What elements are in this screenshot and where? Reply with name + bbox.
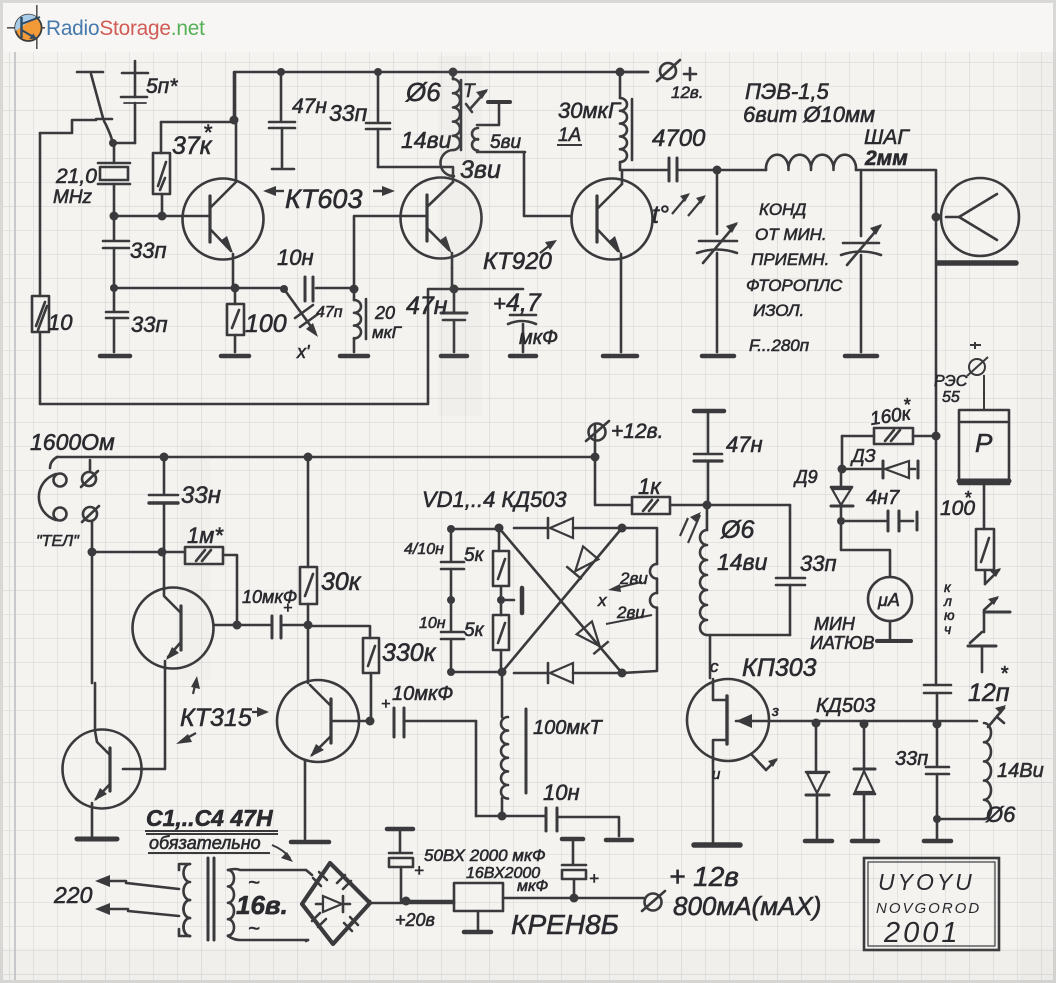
meter мкА [868,577,912,621]
inductor 20мкГ [353,289,356,300]
svg-text:обязательно: обязательно [149,833,261,853]
diode VD5 КД503 [815,723,818,772]
ground under 100 [221,354,249,359]
svg-text:*: * [203,120,213,145]
svg-text:33п: 33п [329,100,368,126]
transistor Q1 emitter arrow [220,236,233,253]
svg-text:330к: 330к [382,639,437,667]
svg-text:ПРИЕМН.: ПРИЕМН. [751,250,829,269]
terminal Ø +12в top [620,71,648,74]
svg-text:10н: 10н [419,615,446,632]
capacitor 47н emitter Q2 [453,289,456,312]
capacitor 2000мкФ (input) [387,827,413,832]
svg-text:мкФ: мкФ [517,878,549,895]
svg-text:Ø6: Ø6 [720,516,754,544]
transistor Q5 КТ315 [277,680,359,762]
svg-text:2ви: 2ви [619,569,648,588]
svg-text:MHz: MHz [53,187,93,208]
svg-text:мкФ: мкФ [519,327,558,349]
terminal Ø output [645,894,662,911]
svg-text:ПЭВ-1,5: ПЭВ-1,5 [745,79,830,104]
variable capacitor C* (right) [860,170,863,236]
svg-text:5к: 5к [464,545,485,566]
RadioStorage.net logo text [46,17,205,40]
С1..С4 underline + arrow [145,831,290,858]
ground under Q6 [77,837,117,842]
svg-text:14ви: 14ви [717,549,768,575]
wire rail risers [594,425,597,457]
svg-text:10н: 10н [543,780,580,805]
scan border edges [0,0,1056,3]
svg-text:Ø6: Ø6 [985,802,1016,827]
svg-text:+: + [381,696,390,713]
variable capacitor C* (left) [716,170,719,234]
rectifier bridge diamond [302,863,370,944]
wire gate line КД503 [769,720,977,723]
wire mod tank top [707,504,790,507]
transistor Q4 КТ315 [133,588,214,669]
transistor Q6 КТ315 [63,730,142,809]
svg-text:Ø6: Ø6 [405,77,441,107]
svg-text:ИАТЮВ: ИАТЮВ [810,633,875,653]
diode VD4 triangle [550,663,573,683]
ground under 20мкГ [340,354,368,359]
capacitor 47н (mod) with top bar [694,409,724,414]
svg-text:мкГ: мкГ [372,323,403,342]
svg-text:з: з [771,703,779,720]
regulator КРЕН8Б box [406,900,454,903]
wire Q6 base [123,768,143,771]
svg-text:х': х' [296,342,310,362]
svg-text:F...280п: F...280п [749,336,810,355]
inductor 30мкГ choke [619,73,622,98]
transistor Q1 КТ603 [183,179,264,260]
resistor 5к lower [500,600,503,615]
diode VD5 triangle [807,773,827,793]
terminal РЭС55 + Ø [967,342,988,410]
wire Q5 base [333,720,370,723]
svg-text:ОТ МИН.: ОТ МИН. [755,225,827,244]
КТ315 label arrows [180,681,264,742]
svg-text:*: * [903,395,911,415]
resistor 330к [308,626,370,638]
КТ920 label arrow [540,242,554,253]
ground under Q5 [291,840,329,845]
bridge cap marks C1..C4 [313,872,327,886]
wire Q2 collector to tank bottom [452,167,455,182]
capacitor 10мкФ (Q4) [271,616,274,638]
diode VD6 triangle [855,771,874,792]
svg-text:UYOYU: UYOYU [878,869,975,895]
svg-text:RadioStorage.net: RadioStorage.net [46,17,205,40]
wire Q1 collector junction [233,72,236,120]
wire bridge bottom [451,671,502,674]
transformer secondary [228,870,234,936]
resistor 5к upper [498,528,501,551]
contact arrows [990,568,1001,577]
wire right side with 2ви windings [622,528,657,564]
diode VD1 triangle [550,518,573,538]
terminal Ø+12в (middle) [589,424,606,441]
svg-text:1А: 1А [558,125,581,146]
diode Д3 [842,468,881,471]
coupling mark between 2ви and 14ви [680,515,700,543]
svg-text:+ 12в: + 12в [669,861,739,892]
svg-text:NOVGOROD: NOVGOROD [876,900,981,917]
svg-text:+20в: +20в [395,910,435,930]
2ви tap arrows [606,582,652,624]
svg-text:и: и [712,766,721,783]
T arrowhead [476,89,488,99]
wire feedback left leg [40,120,96,133]
diode Д9 triangle [832,489,851,505]
FET gate arrow [736,714,752,728]
svg-text:6вит Ø10мм: 6вит Ø10мм [743,102,875,127]
diode VD3 on diagonal [577,621,609,654]
diagonal bottom-left to top-right [502,528,622,672]
transformer T1 primary [179,864,190,870]
wire audio drop [475,721,478,816]
capacitor 33п (first, under crystal) [113,216,116,240]
diode VD1 [547,518,550,538]
svg-text:30мкГ: 30мкГ [558,98,622,123]
wire bridge output [370,901,454,903]
capacitor 10н (audio) [545,808,548,831]
resistor 1м* feedback [162,551,185,554]
КТ603 label arrows [268,190,390,192]
svg-text:*: * [964,488,972,508]
wire coil to antenna drop [856,170,936,217]
Q4 emitter arrow [166,647,179,660]
capacitor 4н7 [842,520,886,523]
transistor Q3 КТ920 [572,179,653,260]
capacitor 33н [163,457,166,494]
diagonal top-left to bottom-right [499,528,622,673]
input 220В arrows [100,880,126,883]
winding 5ви secondary [488,100,510,104]
diode Д9 [840,469,843,487]
source to ground [712,761,715,843]
svg-text:21,0: 21,0 [55,165,97,188]
transformer core [207,858,210,940]
antenna W1 [941,178,1019,256]
junction dots top section [109,68,941,294]
resistor 1к drop [595,457,632,505]
svg-text:КД503: КД503 [816,695,875,717]
capacitor 10н coupling [304,277,307,301]
junction dots bridge [447,524,627,678]
ground under var cap left [702,354,734,359]
transistor U2 КП303 FET [687,679,769,761]
coil adjust arrow [988,708,1004,727]
Q5 emitter arrow [310,744,324,757]
svg-text:РЭС: РЭС [934,373,968,390]
diode VD2 on diagonal [566,546,598,579]
svg-text:VD1,..4 КД503: VD1,..4 КД503 [422,487,567,512]
wire base Q1 [114,215,210,218]
wire bridge top [451,528,499,531]
capacitor 10мкФ (Q5) [393,708,396,737]
svg-text:33п: 33п [895,748,928,770]
svg-text:16в.: 16в. [236,890,288,920]
relay РЭС55 box Р [959,410,1009,484]
inductor ПЭВ-1.5 air coil [766,155,856,170]
svg-text:33п: 33п [131,312,168,337]
wire Q2 base riser [354,216,427,288]
svg-text:+12в.: +12в. [611,420,663,443]
contact ключ [985,570,999,584]
svg-text:~: ~ [248,872,260,894]
ground under 33п chain [100,354,130,359]
diode VD4 bar [547,663,550,683]
substrate lead [752,755,766,770]
svg-text:КТ315: КТ315 [180,704,252,732]
svg-text:100: 100 [245,310,287,338]
Q6 emitter arrow [94,788,107,801]
capacitor 47н (dangling top) [280,72,283,120]
wire to ПЭВ coil [717,169,766,172]
svg-text:+: + [414,861,424,880]
svg-text:КТ603: КТ603 [285,184,362,214]
svg-text:33п: 33п [800,551,837,576]
svg-text:2мм: 2мм [864,147,908,170]
inductor L1 14ви with core [452,72,455,79]
ground under var cap right [845,354,877,359]
wire emitter loop to bottom [41,289,454,404]
core adjust T arrow [470,91,486,109]
inductor Ø6 14ви (mod tank) [706,505,709,530]
svg-text:1к: 1к [638,474,662,499]
wire jack to Q6 collector [91,521,94,552]
diode Д3 triangle [885,461,909,478]
svg-text:55: 55 [942,389,960,406]
transistor Q2 emitter arrow [439,236,452,254]
capacitor 5п* [122,72,148,75]
svg-text:12в.: 12в. [671,83,704,102]
svg-text:5ви: 5ви [490,132,521,153]
svg-text:4/10н: 4/10н [404,541,444,558]
scan shading [438,56,482,416]
wire Q4 base out [214,624,271,627]
svg-text:ФТОРОПЛС: ФТОРОПЛС [746,276,843,295]
crystal ZQ1 21.0 MHz [113,143,116,163]
inductor 100мкТ [501,672,504,717]
svg-text:1600Ом: 1600Ом [30,429,115,455]
svg-text:2001: 2001 [883,917,961,949]
svg-text:47н: 47н [292,95,327,118]
svg-text:100мкТ: 100мкТ [533,717,604,739]
wire switch/cap junction [113,142,135,145]
svg-text:КП303: КП303 [742,654,817,682]
capacitor 4/10н [450,529,453,561]
wire meter drop [841,521,890,577]
wire 160к left drop [841,436,844,469]
wire tank to КП303 drain [709,635,712,678]
resistor 100* [976,529,994,570]
capacitor 33п (mod tank) [789,505,792,577]
wire collector Q3 [621,170,624,184]
trimmer 47п diagonal [284,289,315,332]
svg-text:47н: 47н [726,432,763,457]
t° arrows [672,195,704,216]
resistor 160к [842,435,874,438]
svg-text:ИЗОЛ.: ИЗОЛ. [753,301,804,320]
svg-text:с: с [710,657,719,676]
svg-text:ШАГ: ШАГ [864,126,910,149]
svg-text:47п: 47п [316,304,343,321]
resistor 30к [307,457,310,567]
resistor 37к [160,122,163,153]
svg-text:t°: t° [652,201,669,229]
inductor 3ви bottom curl [440,150,454,176]
svg-text:2ви: 2ви [616,603,645,622]
220 arrowheads [95,875,110,887]
capacitor 12п* [924,684,951,687]
svg-text:10мкФ: 10мкФ [242,587,297,607]
wire top supply rail [235,71,648,74]
svg-text:Р: Р [975,428,993,458]
svg-text:30к: 30к [321,568,362,596]
bridge inner diode [316,903,322,906]
svg-text:20: 20 [374,303,395,323]
inductor 14Ви output coil [984,723,991,819]
trimmer 47п arrowhead [306,323,318,337]
RadioStorage.net logo icon [7,5,45,49]
capacitor 4,7мкФ [454,288,523,291]
wire rail left drop to 37k [161,72,235,122]
box UYOYU NOVGOROD 2001 [864,858,999,950]
svg-text:~: ~ [248,918,260,940]
svg-text:10: 10 [48,310,73,335]
diode VD6 КД503 [863,724,866,769]
svg-text:Д9: Д9 [793,467,818,487]
svg-text:ДЗ: ДЗ [850,446,876,466]
ground under Q3 [603,354,637,359]
capacitor 10н lower [450,600,453,631]
wire audio node [476,815,546,818]
svg-text:+: + [589,869,599,888]
capacitor 33п (out) [936,724,939,766]
transistor Q3 emitter arrow [608,236,621,254]
svg-text:800мА(мАХ): 800мА(мАХ) [673,891,821,921]
transistor Q2 КТ603 [401,178,482,259]
resistor 10 [32,296,49,332]
capacitor 33п (second) [113,288,116,311]
wire lower supply rail [57,456,595,459]
svg-text:5п*: 5п* [146,75,178,98]
wire right feed down [935,217,938,685]
resistor 100 [234,288,237,304]
svg-text:КОНД: КОНД [759,200,806,219]
junction dots middle [88,453,712,726]
bridge inner diode triangle [323,896,342,912]
wire emitter bus [114,287,284,290]
svg-text:4,7: 4,7 [506,289,542,317]
svg-text:С1,..С4 47Н: С1,..С4 47Н [146,805,273,831]
svg-text:"ТЕЛ": "ТЕЛ" [36,533,80,550]
svg-text:+: + [493,291,506,316]
svg-text:50ВХ 2000 мкФ: 50ВХ 2000 мкФ [424,846,545,865]
svg-text:*: * [1000,663,1009,685]
svg-text:КРЕН8Б: КРЕН8Б [511,909,619,940]
svg-text:5к: 5к [464,620,485,641]
svg-text:10мкФ: 10мкФ [392,683,453,705]
svg-text:220: 220 [53,882,93,908]
svg-text:х: х [597,591,607,610]
capacitor 33п (top rail) [377,72,380,121]
svg-text:4700: 4700 [652,125,706,152]
svg-text:μА: μА [877,590,900,610]
capacitor 4700 [621,169,668,172]
capacitor plate tap [501,599,514,602]
capacitor 2000мкФ (output) [562,837,583,842]
switch S1 [77,71,103,74]
svg-text:ч: ч [944,621,951,637]
connector headphone ТЕЛ [39,474,56,520]
svg-text:33п: 33п [130,238,167,263]
svg-text:МИН: МИН [814,614,856,634]
svg-text:4н7: 4н7 [866,487,900,509]
svg-text:10н: 10н [277,245,314,270]
